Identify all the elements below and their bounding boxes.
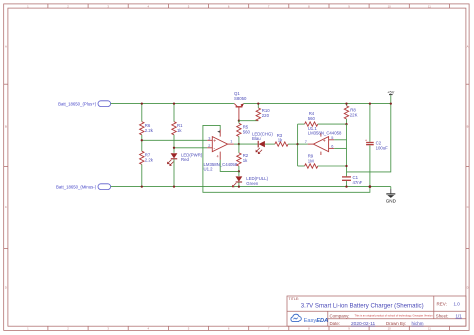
wire op-amp1 V+ loop bbox=[203, 125, 370, 192]
svg-text:Red: Red bbox=[181, 157, 189, 162]
transistor Q1 S8050 bbox=[234, 91, 247, 121]
wire feedback column op-amp2 bbox=[297, 124, 299, 166]
svg-text:Sheet:: Sheet: bbox=[436, 313, 449, 318]
svg-text:10: 10 bbox=[388, 327, 392, 331]
wire base to R10 bbox=[239, 120, 258, 122]
svg-text:560: 560 bbox=[243, 129, 251, 134]
wire bottom rail corner to GND bbox=[390, 187, 392, 189]
svg-text:+5V: +5V bbox=[387, 90, 394, 95]
svg-text:GND: GND bbox=[386, 198, 397, 203]
svg-text:C: C bbox=[5, 205, 7, 209]
node bottom rail / LED(FULL) bbox=[238, 185, 240, 187]
node output junction bbox=[238, 143, 240, 145]
svg-text:TITLE:: TITLE: bbox=[289, 297, 300, 301]
frame zone ticks sides bbox=[4, 84, 469, 248]
resistor R6 bbox=[140, 104, 154, 141]
resistor R4 bbox=[298, 111, 347, 126]
svg-text:C: C bbox=[467, 205, 469, 209]
svg-text:EasyEDA: EasyEDA bbox=[304, 318, 329, 324]
wire R1 node to op-amp pin2 bbox=[174, 147, 207, 149]
svg-text:100uF: 100uF bbox=[376, 145, 389, 150]
node top rail / R10 bbox=[257, 102, 259, 104]
svg-text:5: 5 bbox=[331, 136, 333, 140]
svg-text:3.7V Smart Li-ion Battery Char: 3.7V Smart Li-ion Battery Charger (Shema… bbox=[301, 303, 424, 310]
port Batt_18650_(Minus-) bbox=[56, 184, 111, 190]
svg-text:Green: Green bbox=[246, 181, 259, 186]
frame zone numbers top bbox=[27, 4, 431, 8]
resistor R3 bbox=[275, 133, 298, 146]
EasyEDA logo bbox=[291, 314, 328, 324]
node top rail / R8 bbox=[345, 102, 347, 104]
resistor R10 bbox=[256, 104, 270, 121]
svg-text:1.0: 1.0 bbox=[454, 301, 461, 306]
ground GND bbox=[386, 194, 397, 204]
frame zone letters right bbox=[467, 44, 469, 289]
svg-text:4: 4 bbox=[217, 155, 219, 159]
svg-text:LM358N_C44058: LM358N_C44058 bbox=[308, 130, 342, 135]
node R8/R4 junction bbox=[345, 123, 347, 125]
resistor R8 bbox=[344, 104, 357, 125]
resistor R5 bbox=[237, 121, 251, 144]
frame zone ticks top bbox=[48, 4, 450, 8]
node bottom rail / R7 bbox=[141, 185, 143, 187]
svg-text:B: B bbox=[5, 124, 7, 128]
svg-text:S8050: S8050 bbox=[234, 96, 247, 101]
wire ref node to right vertical bbox=[347, 104, 391, 172]
svg-text:+: + bbox=[213, 139, 216, 145]
svg-text:U1.2: U1.2 bbox=[204, 167, 214, 172]
svg-text:2.2k: 2.2k bbox=[145, 158, 154, 163]
TITLE BLOCK bbox=[287, 296, 466, 327]
node bottom rail / C2 return bbox=[369, 185, 372, 188]
svg-text:11: 11 bbox=[428, 4, 431, 8]
frame zone ticks bottom bbox=[48, 326, 450, 330]
svg-text:3: 3 bbox=[208, 136, 210, 140]
node top rail / +5V bbox=[390, 102, 392, 104]
node top rail / R6 bbox=[141, 102, 143, 104]
svg-text:Batt_18650_(Plus+): Batt_18650_(Plus+) bbox=[58, 101, 97, 106]
svg-text:1M: 1M bbox=[308, 158, 314, 163]
wire top rail left bbox=[111, 103, 235, 105]
LED(PWR) D red bbox=[167, 148, 203, 187]
svg-text:7: 7 bbox=[305, 140, 307, 144]
wire op-amp1 pin4 to R2/LED node bbox=[220, 160, 239, 172]
capacitor C1 47nF bbox=[342, 175, 363, 186]
svg-text:2.2k: 2.2k bbox=[145, 128, 154, 133]
resistor R1 bbox=[172, 104, 183, 148]
wire mid rail to op-amp pin3 bbox=[142, 139, 207, 141]
node ref/R9/C1 junction bbox=[345, 165, 347, 167]
wire output to LED(CHG) bbox=[239, 143, 258, 145]
svg-text:hichm: hichm bbox=[412, 321, 424, 326]
svg-text:22K: 22K bbox=[350, 113, 358, 118]
node R6/R7 divider bbox=[141, 139, 143, 141]
wire top rail right bbox=[243, 103, 390, 105]
svg-text:6: 6 bbox=[331, 145, 333, 149]
svg-text:10: 10 bbox=[388, 4, 392, 8]
resistor R2 bbox=[237, 144, 249, 171]
svg-text:-: - bbox=[323, 147, 325, 153]
svg-text:47nF: 47nF bbox=[353, 180, 363, 185]
frame zone numbers bottom bbox=[27, 327, 431, 331]
wire ref column bbox=[346, 124, 348, 176]
svg-text:D: D bbox=[467, 286, 469, 290]
svg-text:This is an original product of: This is an original product of school of… bbox=[355, 313, 434, 317]
svg-text:220: 220 bbox=[262, 113, 270, 118]
frame zone letters left bbox=[5, 44, 7, 289]
svg-text:Date:: Date: bbox=[330, 321, 341, 326]
svg-text:A: A bbox=[467, 44, 469, 48]
node top rail / C2 bbox=[369, 102, 371, 104]
wire op-amp1 output bbox=[234, 143, 239, 145]
svg-text:Blau: Blau bbox=[252, 136, 261, 141]
svg-text:2: 2 bbox=[208, 144, 210, 148]
node top rail / R1 bbox=[173, 102, 175, 104]
svg-text:1/1: 1/1 bbox=[456, 313, 463, 318]
resistor R9 bbox=[298, 154, 347, 169]
op-amp U1.2 LM358N bbox=[204, 130, 238, 172]
svg-text:Drawn By:: Drawn By: bbox=[386, 321, 406, 326]
node R2/LED(FULL)/pin4 junction bbox=[238, 170, 240, 172]
svg-text:11: 11 bbox=[428, 327, 431, 331]
svg-text:B: B bbox=[467, 124, 469, 128]
svg-text:REV:: REV: bbox=[437, 301, 447, 306]
node op-amp2 output junction bbox=[296, 143, 298, 145]
svg-text:Batt_18650_(Minus-): Batt_18650_(Minus-) bbox=[56, 184, 97, 189]
wire op-amp2 pin5 to ref column bbox=[334, 139, 346, 141]
op-amp U1.1 LM358N (mirrored) bbox=[305, 126, 342, 155]
LED(CHG) blue bbox=[252, 131, 275, 154]
wire op-amp2 pin6 to ref column bbox=[334, 147, 346, 149]
node R1/LED(PWR) divider bbox=[173, 147, 175, 149]
node bottom rail / C1 bbox=[345, 185, 347, 187]
capacitor C2 100uF bbox=[365, 104, 388, 187]
svg-text:560: 560 bbox=[308, 116, 316, 121]
svg-text:2020-02-11: 2020-02-11 bbox=[351, 321, 376, 327]
svg-text:A: A bbox=[5, 44, 7, 48]
svg-text:-: - bbox=[213, 146, 215, 152]
wire op-amp2 output to node bbox=[298, 143, 308, 145]
LED(FULL) green bbox=[232, 171, 269, 187]
svg-text:+: + bbox=[323, 138, 326, 144]
svg-text:Company:: Company: bbox=[330, 313, 350, 318]
wire bottom rail bbox=[111, 186, 391, 188]
svg-text:D: D bbox=[5, 286, 7, 290]
+5V power flag bbox=[387, 90, 394, 104]
port Batt_18650_(Plus+) bbox=[58, 101, 111, 107]
node base junction bbox=[238, 120, 240, 122]
resistor R7 bbox=[140, 140, 154, 186]
node bottom rail / LED(PWR) bbox=[173, 185, 175, 187]
svg-text:1: 1 bbox=[230, 139, 232, 143]
